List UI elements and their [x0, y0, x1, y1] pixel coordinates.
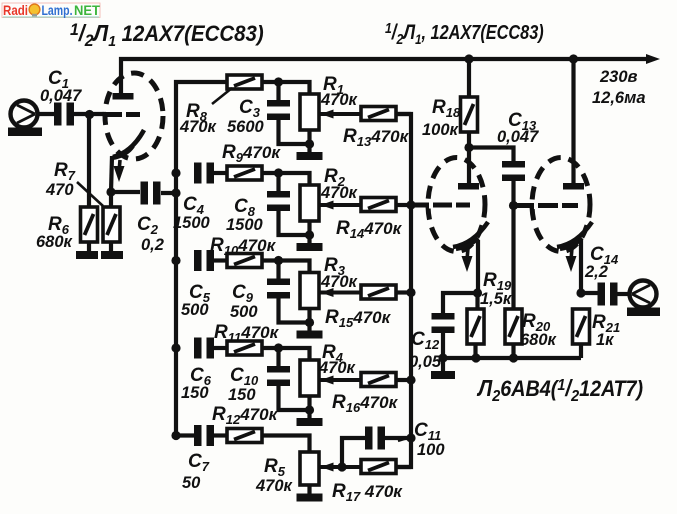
ground under R6 [87, 242, 91, 252]
svg-text:0,05: 0,05 [409, 353, 442, 371]
capacitor C7 series [194, 425, 202, 446]
svg-text:1/2Л1 12АХ7(ЕСС83): 1/2Л1 12АХ7(ЕСС83) [70, 20, 264, 50]
potentiometer R4 470k [300, 360, 319, 396]
node: plate of tube2 [464, 143, 473, 152]
svg-text:R13470к: R13470к [343, 126, 410, 149]
node: bus band 4 [171, 343, 180, 352]
wire + node after R9 [262, 171, 280, 175]
tube1 grid [106, 112, 140, 117]
svg-text:R15470к: R15470к [325, 307, 392, 330]
arrow: supply rail end [646, 54, 660, 64]
trimmer R13 470k [361, 107, 396, 121]
capacitor C11 100 [342, 438, 365, 467]
output connector X2 [630, 281, 657, 308]
svg-text:Radi: Radi [3, 2, 28, 18]
wire R13 to right bus [396, 112, 411, 116]
tube label L2 6AV4 (1/2 12AT7) [476, 375, 643, 405]
ground under R5 [307, 485, 311, 494]
capacitor C6 series [194, 338, 202, 359]
capacitor C4 series [194, 163, 202, 184]
wire C13 down to grid node [511, 181, 515, 309]
wiper arrow of R1 [319, 112, 361, 116]
wiper arrow of R5 [319, 465, 361, 469]
wire: C1 to grid node [74, 112, 106, 116]
triode tube V1 (1/2 12AX7) envelope [105, 73, 163, 159]
bottom common rail [443, 356, 581, 360]
node: bus band 2 [171, 168, 180, 177]
svg-text:470к: 470к [320, 273, 359, 291]
node: bus band 5 [171, 431, 180, 440]
capacitor C2 0.2 [111, 190, 140, 194]
node + ground [307, 221, 311, 235]
node + ground [307, 396, 311, 410]
trimmer R8 470k [227, 75, 262, 89]
svg-text:Lamp.: Lamp. [42, 2, 73, 18]
capacitor C13 0.047 [502, 161, 525, 168]
node: grid of tube 1 [85, 110, 94, 119]
tube label half L1 12AX7 (ECC83) left [70, 20, 264, 50]
wire + node after R11 [262, 346, 280, 350]
capacitor C1 [54, 103, 62, 126]
wiper arrow of R2 [319, 203, 361, 207]
tube3 cathode [557, 222, 592, 247]
pointer line R7 [77, 182, 103, 206]
tube2 anode [458, 183, 479, 190]
capacitor C5 series [194, 250, 202, 271]
svg-text:470к: 470к [320, 184, 359, 202]
wire: input to C1 [36, 112, 54, 116]
svg-text:50: 50 [182, 474, 201, 492]
svg-text:R9470к: R9470к [222, 142, 281, 165]
capacitor C9 shunt [276, 261, 280, 280]
trimmer R15 470k [361, 285, 396, 299]
node on wiper line band5 [337, 462, 346, 471]
potentiometer R3 470k [300, 273, 319, 309]
resistor R19 1.5k [475, 293, 479, 309]
svg-text:1500: 1500 [226, 216, 264, 234]
capacitor C14 2.2 [581, 291, 599, 295]
triode tube V2 (1/2 12AT7) envelope [428, 158, 485, 252]
svg-text:1/2Л1, 12АХ7(ЕСС83): 1/2Л1, 12АХ7(ЕСС83) [385, 20, 544, 47]
RadioLamp.NET logo [2, 2, 100, 18]
svg-text:470к: 470к [318, 359, 357, 377]
trimmer R12 470k [227, 429, 262, 443]
tube3 grid [514, 203, 579, 208]
potentiometer R2 470k [300, 185, 319, 221]
svg-text:470: 470 [45, 181, 74, 199]
wire: C2 to left bus [161, 191, 178, 195]
ground under R7 [109, 242, 113, 252]
svg-text:500: 500 [230, 303, 258, 321]
svg-text:680к: 680к [36, 233, 74, 251]
svg-text:R10470к: R10470к [210, 235, 277, 258]
svg-text:150: 150 [181, 384, 209, 402]
svg-text:150: 150 [228, 386, 256, 404]
wire: right collect bus [396, 114, 411, 467]
svg-text:R11470к: R11470к [214, 322, 280, 345]
svg-text:100: 100 [417, 441, 445, 459]
tube1 anode [113, 93, 134, 100]
resistor R18 100k [467, 59, 471, 97]
svg-text:680к: 680к [520, 331, 558, 349]
potentiometer R1 470k [300, 94, 319, 130]
tube3 anode lead to rail [571, 59, 575, 184]
svg-text:0,047: 0,047 [497, 128, 539, 146]
node: cathode tube3 / output [576, 288, 585, 297]
node: C2 on bus [171, 188, 180, 197]
resistor R20 680k [505, 309, 522, 344]
trimmer R11 470k [227, 341, 262, 355]
wire R18 to plate node [467, 132, 471, 149]
resistor R6 680k [81, 207, 98, 242]
trimmer R9 470k [227, 166, 262, 180]
tube label half L1 12AX7 (ECC83) right [385, 20, 544, 47]
svg-text:R12470к: R12470к [212, 404, 279, 427]
wire: +230V top rail [121, 59, 650, 96]
wire: left feed bus [176, 82, 228, 436]
svg-text:1500: 1500 [173, 214, 211, 232]
ground under C12 [431, 371, 455, 379]
wire node to C13 [469, 148, 514, 162]
svg-text:2,2: 2,2 [584, 263, 608, 281]
node rail R18 [464, 54, 473, 63]
node: cathode tube2 [473, 288, 482, 297]
svg-text:1,5к: 1,5к [480, 290, 513, 308]
input connector X1 [11, 101, 38, 128]
svg-text:100к: 100к [422, 121, 460, 139]
node: cathode tube1 [106, 187, 115, 196]
svg-text:1к: 1к [596, 331, 615, 349]
svg-text:230в: 230в [599, 68, 638, 86]
svg-text:0,047: 0,047 [40, 87, 82, 105]
svg-text:500: 500 [181, 301, 209, 319]
capacitor C3 shunt [276, 82, 280, 101]
node: grid tube3 [509, 201, 518, 210]
wiper arrow of R4 [319, 378, 361, 382]
wire C14 to output [617, 292, 630, 296]
svg-text:R14470к: R14470к [336, 218, 403, 241]
wire: grid node down to R6 [87, 114, 91, 207]
wire R16 to right bus [396, 378, 411, 382]
trimmer R16 470k [361, 373, 396, 387]
wire R14 to right bus [396, 203, 411, 207]
capacitor C12 0.05 [443, 293, 478, 313]
svg-text:R17 470к: R17 470к [332, 481, 403, 504]
node C12 bottom rail [438, 353, 447, 362]
trimmer R17 470k [361, 460, 396, 474]
tube2 grid [411, 203, 470, 208]
resistor R21 1k [573, 309, 590, 344]
svg-text:0,2: 0,2 [141, 236, 164, 254]
wiper arrow of R3 [319, 291, 361, 295]
trimmer R10 470k [227, 254, 262, 268]
triode tube V3 (6AV4) envelope [532, 158, 590, 252]
svg-text:12,6ма: 12,6ма [592, 89, 646, 107]
capacitor C8 shunt [276, 173, 280, 192]
svg-text:5600: 5600 [227, 118, 265, 136]
trimmer R14 470k [361, 198, 396, 212]
wire + node after R8 [262, 80, 280, 84]
potentiometer R5 470k [300, 452, 319, 485]
tube3 anode [563, 183, 584, 190]
tube1 cathode [113, 130, 144, 157]
svg-text:R16470к: R16470к [332, 392, 399, 415]
svg-text:470к: 470к [255, 477, 294, 495]
capacitor C10 shunt [276, 348, 280, 367]
wire R15 to right bus [396, 290, 411, 294]
pointer C11 [398, 437, 411, 441]
wire + node after R10 [262, 258, 280, 262]
node + ground [307, 309, 311, 323]
wire R17 to right bus [396, 465, 411, 469]
svg-text:470к: 470к [320, 91, 359, 109]
svg-text:NET: NET [74, 2, 100, 18]
node: bus band 3 [171, 256, 180, 265]
tube2 cathode [453, 222, 488, 247]
svg-text:470к: 470к [179, 118, 218, 136]
node + ground [307, 130, 311, 144]
resistor R7 470 [109, 192, 113, 207]
